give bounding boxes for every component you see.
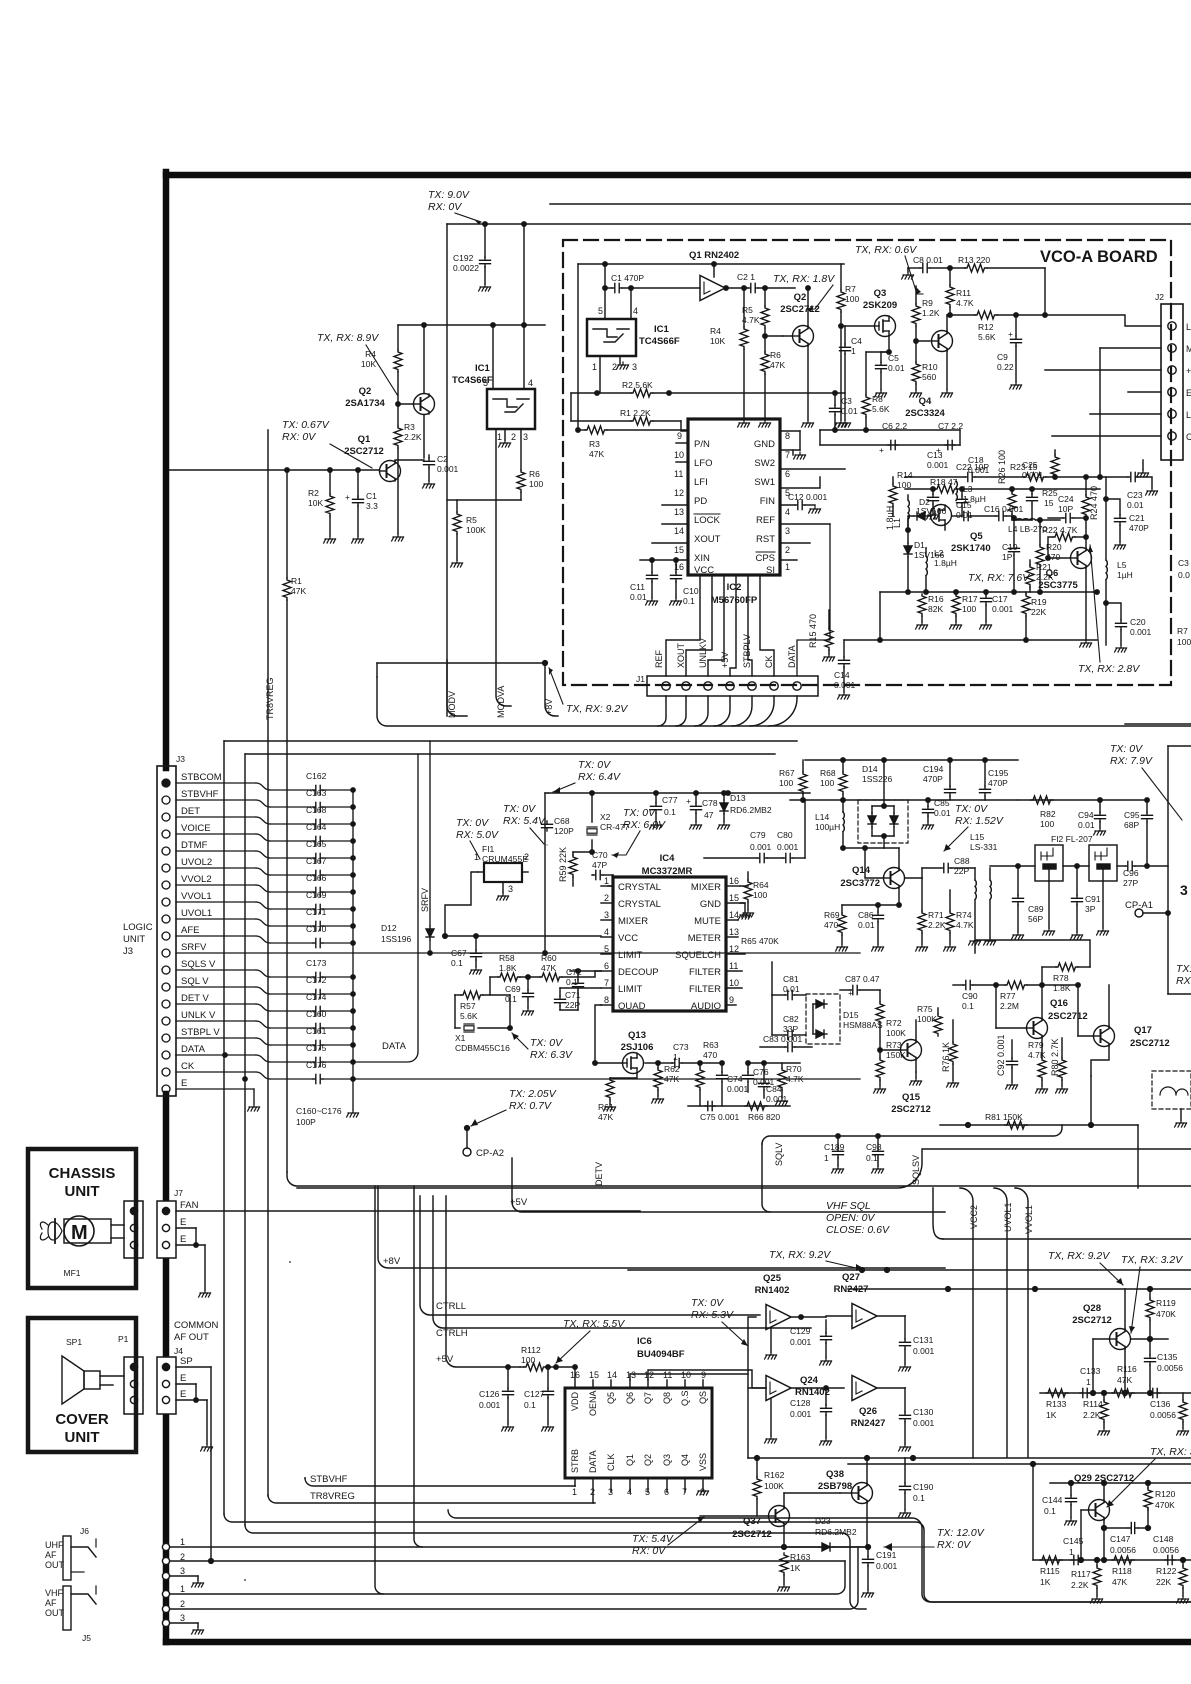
- svg-text:SQLSV: SQLSV: [911, 1155, 921, 1185]
- svg-text:47K: 47K: [1117, 1375, 1132, 1385]
- resistor R3: [397, 404, 399, 426]
- resistor R71 2.2K: [921, 878, 923, 911]
- svg-text:MUTE: MUTE: [694, 916, 721, 927]
- svg-text:Q4: Q4: [680, 1454, 690, 1466]
- svg-text:R12: R12: [978, 322, 994, 332]
- svg-text:Q.S: Q.S: [680, 1390, 690, 1406]
- wire filter row: [990, 865, 1035, 867]
- node J3 DTMF: [162, 847, 170, 855]
- svg-text:C13: C13: [927, 450, 943, 460]
- svg-text:RN1402: RN1402: [755, 1285, 790, 1296]
- svg-text:SRFV: SRFV: [181, 942, 207, 953]
- svg-text:4.7K: 4.7K: [786, 1074, 804, 1084]
- svg-text:AF OUT: AF OUT: [174, 1332, 209, 1343]
- svg-text:VHF: VHF: [45, 1588, 64, 1598]
- svg-text:3: 3: [523, 432, 528, 442]
- svg-text:P/N: P/N: [694, 439, 710, 450]
- resistor R9 1.2K: [915, 286, 917, 304]
- svg-text:Q15: Q15: [902, 1092, 921, 1103]
- svg-text:100µH: 100µH: [815, 822, 840, 832]
- svg-text:2: 2: [180, 1552, 185, 1562]
- capacitor C131 0.001: [904, 1316, 906, 1339]
- svg-text:VCC: VCC: [618, 933, 638, 944]
- svg-text:R163: R163: [790, 1552, 811, 1562]
- wire TR8VREG row: [268, 1495, 595, 1503]
- svg-text:TR8VREG: TR8VREG: [265, 677, 275, 720]
- svg-text:100: 100: [779, 778, 793, 788]
- svg-text:C18: C18: [968, 455, 984, 465]
- svg-text:2SK209: 2SK209: [863, 300, 897, 311]
- svg-text:TX, RX: 9.2V: TX, RX: 9.2V: [1048, 1250, 1110, 1262]
- svg-text:22P: 22P: [954, 866, 969, 876]
- svg-text:R78: R78: [1053, 973, 1069, 983]
- svg-text:TX: 0.67V: TX: 0.67V: [282, 419, 330, 431]
- svg-text:Q1: Q1: [358, 434, 371, 445]
- svg-text:R67: R67: [779, 768, 795, 778]
- svg-text:Q1: Q1: [625, 1454, 635, 1466]
- svg-text:LIMIT: LIMIT: [618, 950, 642, 961]
- svg-text:R1: R1: [291, 576, 302, 586]
- svg-text:L3: L3: [963, 484, 973, 494]
- svg-text:2SJ106: 2SJ106: [621, 1042, 654, 1053]
- node J3 UVOL2: [162, 864, 170, 872]
- svg-text:C20: C20: [1130, 617, 1146, 627]
- svg-text:TX, RX: 2.8V: TX, RX: 2.8V: [1078, 663, 1140, 675]
- resistor R67 100: [802, 760, 804, 772]
- node J3 VVOL1: [162, 898, 170, 906]
- svg-text:CLK: CLK: [606, 1453, 616, 1471]
- wires from Q outputs up: [630, 1317, 756, 1380]
- svg-text:TX, RX: 7.6V: TX, RX: 7.6V: [968, 572, 1030, 584]
- svg-text:C160: C160: [306, 1009, 327, 1019]
- wire column A: [375, 1186, 383, 1594]
- svg-text:1.8K: 1.8K: [499, 963, 517, 973]
- motor MF1: [64, 1216, 94, 1246]
- wire R81 row: [940, 1124, 1138, 1126]
- wire left long from Q1: [167, 469, 169, 471]
- svg-text:C88: C88: [954, 856, 970, 866]
- svg-text:XOUT: XOUT: [676, 642, 686, 668]
- svg-text:OPEN: 0V: OPEN: 0V: [826, 1212, 875, 1224]
- wire y1458: [748, 1457, 1191, 1459]
- node J3 SQL V: [162, 983, 170, 991]
- dashed box right: [1152, 1071, 1191, 1109]
- inductor L5: [1105, 499, 1107, 560]
- svg-text:E: E: [180, 1389, 186, 1400]
- svg-text:1K: 1K: [790, 1563, 801, 1573]
- wire bottom to C14: [879, 592, 881, 640]
- svg-text:STBVHF: STBVHF: [181, 789, 219, 800]
- svg-text:C2 1: C2 1: [737, 272, 755, 282]
- svg-text:C82: C82: [783, 1014, 799, 1024]
- svg-text:9: 9: [729, 995, 734, 1005]
- svg-text:22P: 22P: [565, 1000, 580, 1010]
- svg-text:0.0056: 0.0056: [1157, 1363, 1183, 1373]
- svg-text:100K: 100K: [764, 1481, 784, 1491]
- svg-text:R15 470: R15 470: [808, 614, 818, 648]
- inductor L14 100uH: [842, 811, 844, 813]
- svg-text:R68: R68: [820, 768, 836, 778]
- svg-text:QS: QS: [698, 1391, 708, 1404]
- svg-text:TX, RX: 3.2V: TX, RX: 3.2V: [1121, 1254, 1183, 1266]
- capacitor C174: [313, 1006, 323, 1015]
- svg-text:CTRLL: CTRLL: [436, 1301, 466, 1312]
- svg-text:C3: C3: [841, 396, 852, 406]
- svg-text:R72: R72: [886, 1018, 902, 1028]
- svg-text:COMMON: COMMON: [174, 1320, 218, 1331]
- svg-text:C6 2.2: C6 2.2: [882, 421, 907, 431]
- svg-text:150K: 150K: [886, 1050, 906, 1060]
- svg-text:2: 2: [785, 545, 790, 555]
- capacitor C3 0.01: [834, 393, 836, 405]
- svg-text:TX: 0V: TX: 0V: [578, 759, 611, 771]
- svg-text:STRB: STRB: [570, 1449, 580, 1473]
- svg-text:VCO-A BOARD: VCO-A BOARD: [1040, 248, 1158, 266]
- svg-text:TX: 12.0V: TX: 12.0V: [937, 1527, 985, 1539]
- svg-text:D13: D13: [730, 793, 746, 803]
- svg-text:SP: SP: [180, 1356, 193, 1367]
- svg-text:47: 47: [704, 810, 714, 820]
- svg-text:56P: 56P: [1028, 914, 1043, 924]
- svg-text:R71: R71: [928, 910, 944, 920]
- svg-text:Q26: Q26: [859, 1406, 877, 1417]
- svg-text:R80 2.7K: R80 2.7K: [1050, 1038, 1060, 1076]
- svg-text:C160~C176: C160~C176: [296, 1106, 342, 1116]
- svg-text:R79: R79: [1028, 1040, 1044, 1050]
- svg-text:C174: C174: [306, 992, 327, 1002]
- IC2 M56760FP body: [688, 419, 780, 575]
- capacitor C89 56P: [1017, 866, 1019, 895]
- capacitor C169: [313, 904, 323, 913]
- svg-text:C: C: [1186, 432, 1191, 442]
- svg-text:6: 6: [664, 1487, 669, 1497]
- svg-text:4: 4: [627, 1487, 632, 1497]
- svg-text:DATA: DATA: [588, 1450, 598, 1473]
- svg-text:PD: PD: [694, 496, 707, 507]
- svg-text:Q16: Q16: [1050, 998, 1068, 1009]
- svg-text:FILTER: FILTER: [689, 967, 721, 978]
- svg-text:AF: AF: [45, 1550, 57, 1560]
- svg-text:5.6K: 5.6K: [978, 332, 996, 342]
- vertical bus left pair: [223, 741, 225, 1514]
- svg-text:R14: R14: [897, 470, 913, 480]
- capacitor C70 47P: [591, 852, 593, 868]
- svg-text:C126: C126: [479, 1389, 500, 1399]
- svg-text:R58: R58: [499, 953, 515, 963]
- capacitor C160: [313, 1023, 323, 1032]
- transistor Q14 2SC3772: [884, 868, 905, 889]
- wire CTRLL: [420, 1196, 760, 1315]
- svg-text:0.001: 0.001: [727, 1084, 749, 1094]
- svg-text:RN2427: RN2427: [851, 1418, 886, 1429]
- svg-text:4.7K: 4.7K: [742, 315, 760, 325]
- svg-text:C96: C96: [1123, 868, 1139, 878]
- svg-text:C170: C170: [306, 924, 327, 934]
- wire column B: [414, 1186, 422, 1547]
- svg-text:C73: C73: [673, 1042, 689, 1052]
- svg-text:R76 1K: R76 1K: [941, 1042, 951, 1072]
- svg-text:C176: C176: [306, 1060, 327, 1070]
- capacitor C168: [313, 819, 323, 828]
- svg-text:0.01: 0.01: [1078, 820, 1095, 830]
- svg-text:LIMIT: LIMIT: [618, 984, 642, 995]
- svg-text:AUDIO: AUDIO: [691, 1001, 721, 1012]
- svg-text:C90: C90: [962, 991, 978, 1001]
- svg-text:13: 13: [626, 1370, 636, 1380]
- capacitor C164: [313, 836, 323, 845]
- svg-text:IC6: IC6: [637, 1336, 652, 1347]
- wire base row: [1040, 1392, 1191, 1394]
- svg-text:AF: AF: [45, 1598, 57, 1608]
- SECTION-CHASSIS: [28, 1149, 136, 1452]
- svg-text:R21: R21: [1036, 562, 1052, 572]
- SECTION-BOTTOMRIGHT: [388, 1287, 1191, 1603]
- svg-text:R118: R118: [1112, 1566, 1132, 1576]
- svg-text:VHF SQL: VHF SQL: [826, 1200, 871, 1212]
- filter FI2 FL-207 #2: [1089, 845, 1117, 881]
- svg-text:C95: C95: [1124, 810, 1140, 820]
- diode D12 1SS196: [429, 741, 431, 926]
- svg-text:J3: J3: [176, 754, 185, 764]
- resistor R70 4.7K: [781, 1063, 783, 1068]
- svg-text:2.2K: 2.2K: [1071, 1580, 1089, 1590]
- svg-text:2: 2: [511, 432, 516, 442]
- svg-text:5.6K: 5.6K: [872, 404, 890, 414]
- svg-text:1K: 1K: [1046, 1410, 1057, 1420]
- svg-text:10: 10: [674, 450, 684, 460]
- svg-text:C168: C168: [306, 805, 327, 815]
- svg-text:TX: 0V: TX: 0V: [691, 1297, 724, 1309]
- svg-text:C19: C19: [1002, 542, 1018, 552]
- svg-text:C24: C24: [1058, 494, 1074, 504]
- transistor Q3 2SK209: [875, 316, 896, 337]
- capacitor C69 0.1: [527, 977, 529, 990]
- wire across to +8v: [377, 662, 545, 664]
- svg-text:R61: R61: [598, 1102, 614, 1112]
- svg-text:R16: R16: [928, 594, 944, 604]
- svg-text:15: 15: [589, 1370, 599, 1380]
- svg-text:SQLS V: SQLS V: [181, 959, 216, 970]
- svg-text:4: 4: [528, 378, 533, 388]
- svg-text:BU4094BF: BU4094BF: [637, 1349, 685, 1360]
- svg-text:0.1: 0.1: [524, 1400, 536, 1410]
- resistor R58 1.8K: [490, 976, 498, 978]
- resistor R4: [394, 350, 402, 372]
- svg-text:R60: R60: [541, 953, 557, 963]
- resistor R1 2.2K: [571, 420, 631, 422]
- capacitor C24 10P: [1048, 517, 1063, 519]
- svg-text:C3: C3: [1178, 558, 1189, 568]
- resistor R73 150K: [879, 1050, 881, 1058]
- svg-text:+: +: [1008, 329, 1013, 339]
- svg-text:10K: 10K: [361, 359, 376, 369]
- svg-text:VVOL2: VVOL2: [181, 874, 212, 885]
- svg-text:1: 1: [180, 1537, 185, 1547]
- svg-text:C7 2.2: C7 2.2: [938, 421, 963, 431]
- svg-text:CRYSTAL: CRYSTAL: [618, 882, 661, 893]
- svg-text:SI: SI: [766, 565, 775, 576]
- svg-text:RX:: RX:: [1176, 975, 1191, 987]
- transistor Q2 2SC2712 VCO: [793, 326, 814, 347]
- svg-text:470: 470: [1046, 552, 1060, 562]
- svg-text:14: 14: [607, 1370, 617, 1380]
- wire CTRLH: [433, 1196, 811, 1328]
- svg-text:LOGIC: LOGIC: [123, 922, 153, 933]
- svg-text:X2: X2: [600, 812, 611, 822]
- wire CK row: [353, 1078, 860, 1080]
- svg-text:0.001: 0.001: [834, 680, 856, 690]
- resistor R61 47K: [610, 1073, 637, 1078]
- resistor R68 100: [842, 760, 844, 772]
- resistor R163 1K: [783, 1547, 785, 1551]
- svg-text:C147: C147: [1110, 1534, 1131, 1544]
- svg-text:22K: 22K: [1156, 1577, 1171, 1587]
- capacitor C189 1: [837, 1136, 839, 1148]
- capacitor C25 0.001: [1031, 467, 1033, 489]
- svg-text:RX: 1.52V: RX: 1.52V: [955, 815, 1004, 827]
- wire bottom long: [224, 1514, 1191, 1602]
- wire y1464: [848, 1463, 1191, 1465]
- resistor R3 47K: [578, 429, 585, 431]
- capacitor C20 0.001: [1106, 603, 1121, 620]
- svg-text:0.1: 0.1: [683, 596, 695, 606]
- svg-text:3.3: 3.3: [366, 501, 378, 511]
- svg-text:R7: R7: [845, 284, 856, 294]
- svg-text:12: 12: [729, 944, 739, 954]
- svg-text:0.001: 0.001: [913, 1346, 935, 1356]
- capacitor C4 1: [844, 326, 846, 344]
- svg-text:C21: C21: [1129, 513, 1145, 523]
- capacitor C128 0.001: [825, 1388, 827, 1405]
- svg-text:+8V: +8V: [544, 699, 554, 715]
- svg-text:0.0056: 0.0056: [1153, 1545, 1179, 1555]
- svg-text:47K: 47K: [770, 360, 785, 370]
- svg-text:R120: R120: [1155, 1489, 1176, 1499]
- amp Q26 RN2427: [852, 1376, 877, 1401]
- wire node rail Q2: [398, 324, 545, 326]
- svg-text:C144: C144: [1042, 1495, 1063, 1505]
- svg-text:C25: C25: [1022, 460, 1038, 470]
- svg-text:C92 0.001: C92 0.001: [996, 1034, 1006, 1076]
- capacitor C173: [313, 972, 323, 981]
- svg-text:R13 220: R13 220: [958, 255, 990, 265]
- capacitor C147 0.0056: [1110, 1509, 1133, 1511]
- capacitor C161: [313, 1040, 323, 1049]
- svg-text:R4: R4: [710, 326, 721, 336]
- svg-text:C8 0.01: C8 0.01: [913, 255, 943, 265]
- svg-text:C161: C161: [306, 1026, 327, 1036]
- svg-text:0.001: 0.001: [968, 465, 990, 475]
- svg-text:1SS226: 1SS226: [862, 774, 893, 784]
- svg-text:RX: 5.4V: RX: 5.4V: [503, 815, 546, 827]
- svg-text:0.001: 0.001: [790, 1337, 812, 1347]
- svg-text:CTRLH: CTRLH: [436, 1328, 468, 1339]
- capacitor C92 0.001: [1011, 1040, 1013, 1058]
- capacitor C165: [313, 853, 323, 862]
- svg-text:C164: C164: [306, 822, 327, 832]
- svg-text:Q2: Q2: [359, 386, 372, 397]
- svg-text:C135: C135: [1157, 1352, 1178, 1362]
- capacitor C15 0.01: [961, 511, 971, 520]
- svg-text:RST: RST: [756, 534, 775, 545]
- capacitor C170: [313, 938, 323, 947]
- wire R18 row: [905, 488, 935, 490]
- svg-text:1: 1: [474, 852, 479, 862]
- capacitor C144 0.1: [1070, 1483, 1072, 1495]
- capacitor C172: [313, 989, 323, 998]
- svg-text:R133: R133: [1046, 1399, 1067, 1409]
- crystal X1 CDBM455C16: [464, 1024, 474, 1032]
- resistor R25 15: [1053, 475, 1057, 479]
- svg-text:REF: REF: [654, 649, 664, 668]
- svg-text:C192: C192: [453, 253, 474, 263]
- svg-text:1P: 1P: [1002, 552, 1013, 562]
- wire R12 row to J2: [947, 314, 975, 316]
- svg-text:0.01: 0.01: [630, 592, 647, 602]
- SECTION-IC6: [297, 1149, 1191, 1597]
- capacitor C162: [313, 785, 323, 794]
- ground stubs under amps: [770, 1328, 772, 1352]
- svg-text:RX: 5.3V: RX: 5.3V: [691, 1309, 734, 1321]
- svg-text:LFI: LFI: [694, 477, 708, 488]
- capacitor C84 0.001: [763, 1063, 765, 1080]
- capacitor C85 0.01: [927, 800, 929, 806]
- svg-text:L15: L15: [970, 832, 984, 842]
- svg-text:4.7K: 4.7K: [956, 298, 974, 308]
- svg-text:2.2K: 2.2K: [1083, 1410, 1101, 1420]
- svg-text:100K: 100K: [886, 1028, 906, 1038]
- svg-text:0.01: 0.01: [934, 808, 951, 818]
- wires IC2 to J1: [666, 575, 700, 676]
- transistor Q4 2SC3324: [932, 331, 953, 352]
- svg-text:2SC2712: 2SC2712: [780, 304, 820, 315]
- svg-text:13: 13: [674, 507, 684, 517]
- svg-text:M: M: [71, 1222, 88, 1244]
- svg-text:SW2: SW2: [754, 458, 775, 469]
- svg-text:DETV: DETV: [594, 1162, 604, 1186]
- svg-text:3P: 3P: [1085, 904, 1096, 914]
- svg-text:3: 3: [508, 884, 513, 894]
- svg-text:R11: R11: [956, 288, 971, 298]
- svg-text:47K: 47K: [598, 1112, 613, 1122]
- svg-text:470P: 470P: [923, 774, 943, 784]
- capacitor C192: [484, 224, 486, 257]
- svg-text:TC4S66F: TC4S66F: [639, 336, 680, 347]
- svg-text:2.2K: 2.2K: [404, 432, 422, 442]
- speaker SP1: [62, 1356, 84, 1404]
- right block edge: [1167, 746, 1169, 994]
- resistor R20 470: [1038, 518, 1042, 522]
- svg-text:2SK1740: 2SK1740: [951, 543, 991, 554]
- svg-text:UVOL2: UVOL2: [181, 857, 212, 868]
- svg-text:RN2427: RN2427: [834, 1284, 869, 1295]
- resistor R82 100: [1018, 799, 1030, 801]
- svg-text:Q28: Q28: [1083, 1303, 1101, 1314]
- resistor R57 5.6K: [455, 994, 461, 996]
- wire bus down-left: [287, 1172, 1191, 1186]
- svg-text:10: 10: [729, 978, 739, 988]
- svg-text:C84: C84: [766, 1084, 782, 1094]
- resistor R76 1K: [952, 1020, 954, 1042]
- resistor R115 1K: [1040, 1556, 1062, 1564]
- svg-text:0.01: 0.01: [858, 920, 875, 930]
- svg-text:47K: 47K: [291, 586, 306, 596]
- resistor R8 5.6K: [866, 351, 889, 353]
- fan blades: [48, 1222, 62, 1240]
- svg-text:R24 470: R24 470: [1089, 486, 1099, 520]
- capacitor C71 22P: [560, 987, 601, 989]
- svg-text:1K: 1K: [1040, 1577, 1051, 1587]
